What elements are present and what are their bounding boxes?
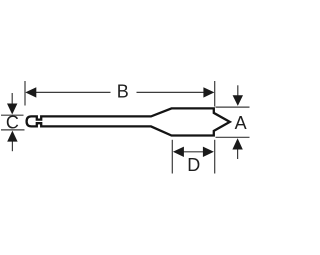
label A <box>235 113 247 133</box>
dimension D arrow right <box>203 147 214 157</box>
dimension D extension line right <box>214 140 216 174</box>
svg-text:D: D <box>187 155 200 175</box>
svg-text:C: C <box>6 112 19 132</box>
label B <box>117 82 129 102</box>
dimension A extension line top <box>216 106 250 108</box>
dimension B arrow right <box>203 87 214 97</box>
label C <box>6 112 19 132</box>
spade bit outline <box>27 108 230 135</box>
dimension A arrow bottom <box>232 138 242 159</box>
dimension B arrow left <box>25 87 36 97</box>
dimension D extension line left <box>171 140 173 174</box>
dimension B line <box>30 91 210 93</box>
dimension D arrow left <box>173 147 184 157</box>
dimension C arrow bottom <box>7 131 17 152</box>
dimension B extension line right <box>214 81 216 107</box>
label D <box>187 155 200 175</box>
svg-text:B: B <box>117 82 129 102</box>
dimension D line <box>177 151 210 153</box>
dimension B extension line left <box>24 81 26 106</box>
dimension A extension line bottom <box>216 136 250 138</box>
dimension C arrow top <box>7 93 17 115</box>
dimension C extension line top <box>1 114 24 116</box>
dimension C extension line bottom <box>1 129 25 131</box>
dimension A arrow top <box>233 85 243 106</box>
svg-text:A: A <box>235 113 247 133</box>
